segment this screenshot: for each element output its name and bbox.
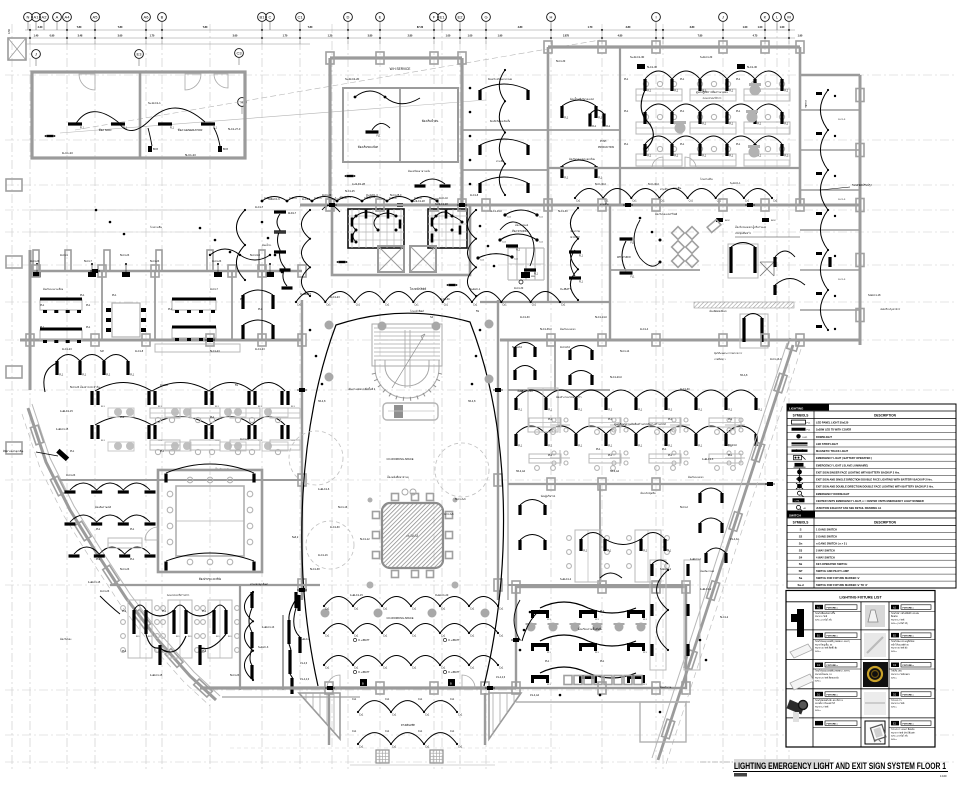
fixture bars row: [643, 112, 646, 124]
long vertical wire right of hall: [467, 210, 476, 296]
corridor S wires: [249, 608, 252, 632]
below classroom small room: [640, 702, 686, 742]
hall rooms bottom wall y390: [508, 389, 610, 391]
grid tick: [161, 30, 163, 44]
svg-text:1S-4,4,6: 1S-4,4,6: [300, 678, 310, 681]
office double door: [652, 157, 663, 168]
room small marks right zone: [716, 218, 723, 222]
svg-text:Cx1: Cx1: [745, 200, 750, 203]
switch row SP: [787, 573, 956, 575]
svg-text:5LC1-2: 5LC1-2: [680, 506, 689, 509]
svg-text:5LC1-16: 5LC1-16: [338, 506, 348, 509]
right corridor top wall: [800, 74, 860, 76]
fixture text cell: [815, 692, 823, 697]
svg-text:โถงหน้าลิฟท์: โถงหน้าลิฟท์: [410, 287, 427, 291]
grid tick: [66, 30, 68, 44]
svg-text:ห้องรับรองงานเยี่ยม: ห้องรับรองงานเยี่ยม: [43, 287, 64, 291]
svg-text:PL1: PL1: [736, 78, 741, 81]
svg-text:Cx1: Cx1: [418, 730, 423, 733]
lounge wires: [634, 220, 660, 266]
atrium long counter table: [383, 403, 438, 420]
legend divider vertical: [813, 411, 815, 511]
svg-text:LED STRIP LIGHT: LED STRIP LIGHT: [816, 442, 838, 446]
grand stair steps: [374, 327, 440, 329]
dimension line lower: [25, 37, 795, 39]
hall small rooms fixtures: [513, 347, 516, 357]
svg-text:DESCRIPTION: DESCRIPTION: [874, 521, 896, 525]
wire hall row1: [516, 390, 756, 398]
svg-text:WH STUDIO: WH STUDIO: [617, 256, 631, 259]
svg-text:ศูนย์เรียนรู้การผลิตสื่อสร้างส: ศูนย์เรียนรู้การผลิตสื่อสร้างสรรค์อย่างส…: [614, 422, 666, 426]
bottom wall door arc 1: [327, 675, 340, 688]
svg-text:5LC1-23: 5LC1-23: [230, 674, 240, 677]
svg-text:ห้อง NOD: ห้อง NOD: [99, 128, 113, 132]
grid bubble B1: [258, 13, 267, 22]
studio fixtures: [506, 244, 518, 247]
svg-text:1.70: 1.70: [588, 26, 593, 29]
right wing wires: [775, 251, 795, 257]
svg-text:1.00: 1.00: [780, 26, 785, 29]
svg-text:PL1: PL1: [80, 294, 85, 297]
studio divider x610: [609, 205, 611, 340]
hall big desks left: [554, 387, 556, 389]
svg-text:5a3,2: 5a3,2: [292, 536, 299, 539]
svg-text:SP: SP: [799, 569, 803, 573]
svg-text:Cx1: Cx1: [297, 304, 302, 307]
door arc top 3: [214, 74, 228, 88]
svg-text:Cx1: Cx1: [473, 304, 478, 307]
switch mark 1: [148, 146, 152, 152]
svg-text:N: N: [27, 15, 30, 20]
diamond lattice furniture: [672, 227, 685, 240]
band d desk wires: [581, 533, 665, 545]
svg-text:5LC1-20-0: 5LC1-20-0: [610, 376, 622, 379]
svg-text:I: I: [655, 15, 656, 20]
svg-text:S+4LC1-28: S+4LC1-28: [412, 200, 425, 203]
left rooms divider x102: [101, 271, 103, 340]
grid tick: [788, 30, 790, 44]
generator block inner wall 2: [244, 72, 247, 158]
grid bubble A5: [91, 13, 100, 22]
fixture pair: [204, 391, 207, 405]
wire row: [645, 136, 782, 144]
svg-text:Cx1: Cx1: [354, 667, 359, 670]
svg-text:1LC1-8: 1LC1-8: [160, 384, 169, 387]
wall pilasters above y271: [33, 250, 39, 271]
svg-text:1LC1-23: 1LC1-23: [62, 151, 73, 155]
svg-text:1 GANG SWITCH: 1 GANG SWITCH: [816, 528, 837, 532]
svg-text:CO-WORKING-SPACE: CO-WORKING-SPACE: [387, 616, 414, 620]
corridor bars right of cluster: [250, 592, 253, 608]
svg-text:ห้องสัมภาษณ์3: ห้องสัมภาษณ์3: [95, 505, 112, 509]
core leader wires: [322, 205, 340, 212]
svg-text:Cx1: Cx1: [383, 608, 388, 611]
legend row exit1: [787, 474, 956, 476]
svg-text:5LC1-2: 5LC1-2: [720, 616, 729, 619]
svg-text:A4: A4: [65, 15, 71, 20]
co-working scallop row 1: [324, 597, 498, 607]
svg-text:S+ELC-3: S+ELC-3: [258, 646, 269, 649]
svg-text:5LC1-23: 5LC1-23: [210, 350, 220, 353]
svg-text:Cx1: Cx1: [412, 635, 417, 638]
grid tick: [261, 30, 263, 44]
fixture icon lamp photo: [865, 605, 885, 627]
svg-text:EXIT SIGN AND DOUBLE DIRECTION: EXIT SIGN AND DOUBLE DIRECTION DOUBLE FA…: [816, 485, 934, 489]
svg-text:S4: S4: [799, 555, 803, 559]
fixture pair: [247, 391, 250, 405]
band d vertical desks: [575, 530, 601, 582]
svg-text:โถงหน้าลิฟท์: โถงหน้าลิฟท์: [410, 309, 424, 313]
desk row: [636, 89, 682, 101]
service fixture: [366, 130, 379, 133]
core room A bars: [351, 218, 354, 227]
WH studio wire: [622, 241, 626, 271]
svg-text:S4f: S4f: [100, 350, 104, 353]
svg-text:S+4LC1-30: S+4LC1-30: [630, 55, 645, 59]
svg-text:O+ELC1-20: O+ELC1-20: [435, 594, 449, 597]
svg-text:1LC1-30: 1LC1-30: [520, 316, 530, 319]
svg-text:S+1LC1-1: S+1LC1-1: [148, 101, 161, 105]
svg-text:J: J: [722, 15, 724, 20]
guest desk pair right: [728, 244, 758, 278]
leader right margin: [820, 187, 850, 190]
svg-text:C3: C3: [236, 51, 242, 56]
svg-text:LED PANEL LIGHT 30x120: LED PANEL LIGHT 30x120: [816, 421, 849, 425]
bottom wall co-working: [200, 686, 516, 689]
junction dots scatter: [261, 221, 264, 224]
below classroom wall: [516, 701, 690, 703]
svg-text:S+ELC-3: S+ELC-3: [300, 638, 310, 641]
svg-text:PL1: PL1: [202, 610, 207, 613]
svg-text:Cx1: Cx1: [425, 714, 430, 717]
small desk bottom left: [108, 538, 142, 548]
band d wires left: [520, 500, 545, 506]
svg-text:E2: E2: [458, 15, 464, 20]
svg-text:S5-4,8: S5-4,8: [468, 400, 476, 403]
svg-text:1LC1-9: 1LC1-9: [838, 199, 846, 201]
svg-text:2 GANG SWITCH: 2 GANG SWITCH: [816, 534, 837, 538]
svg-text:4.50: 4.50: [7, 28, 11, 34]
left zone wall y480: [60, 479, 302, 481]
desk hall scallop row 1: [514, 398, 517, 410]
fixture bars row: [643, 79, 646, 91]
svg-text:S-ELC1-18: S-ELC1-18: [868, 294, 881, 297]
svg-text:BOX: BOX: [725, 220, 730, 222]
svg-text:2 WAY SWITCH: 2 WAY SWITCH: [816, 548, 835, 552]
svg-text:PL1: PL1: [728, 418, 733, 421]
right wing east wall x800: [799, 47, 802, 205]
svg-text:H: H: [550, 15, 553, 20]
meeting room door: [145, 527, 158, 540]
svg-text:1.40: 1.40: [34, 35, 39, 38]
small stair glyph: [760, 262, 774, 276]
svg-text:ห้องรับรองแขก ผู้บริหารและ: ห้องรับรองแขก ผู้บริหารและ: [735, 225, 767, 229]
fixture icon led strip black photo: [863, 662, 888, 687]
svg-text:PL1: PL1: [130, 558, 135, 561]
fixture text cell: [891, 605, 899, 610]
fixture icon torch: [797, 609, 804, 637]
wire row: [645, 104, 782, 112]
diagonal SE columns: [774, 373, 787, 393]
fixture text cell: [891, 663, 899, 668]
meeting room 20 chairs: [167, 491, 173, 497]
svg-text:ติดผนัง: ติดผนัง: [890, 615, 897, 618]
legend row panel: [787, 425, 956, 427]
svg-text:FIXTURE x: FIXTURE x: [827, 636, 839, 638]
svg-text:PL1: PL1: [190, 298, 195, 301]
svg-text:Cx1: Cx1: [385, 730, 390, 733]
left zone chair blobs: [114, 408, 122, 416]
svg-text:1LC1-7: 1LC1-7: [210, 288, 219, 291]
more exit symbols: [329, 203, 335, 207]
svg-text:1LC1-9: 1LC1-9: [838, 119, 846, 121]
core room B grid: [431, 209, 433, 248]
grid tick: [29, 30, 31, 44]
svg-text:Cx1: Cx1: [385, 304, 390, 307]
svg-text:Cx1: Cx1: [356, 304, 361, 307]
svg-text:S5-A,8: S5-A,8: [740, 374, 748, 377]
svg-text:PL1: PL1: [596, 448, 601, 451]
svg-text:Cx1: Cx1: [352, 698, 357, 701]
fixture pair: [147, 391, 150, 405]
svg-text:ห้องรับรองแขกวีไอพี: ห้องรับรองแขกวีไอพี: [655, 212, 678, 216]
svg-text:PL1: PL1: [624, 143, 629, 146]
bottom-left zone walls: [110, 584, 320, 586]
svg-text:O +JBATT: O +JBATT: [448, 639, 460, 642]
grand stair U arc inner: [385, 360, 429, 386]
meeting room wires: [166, 464, 254, 473]
bottom terrace wall: [222, 696, 360, 698]
svg-text:ห้องรับรองแขก: ห้องรับรองแขก: [560, 327, 576, 331]
grid bubble N: [24, 13, 33, 22]
svg-text:PL1: PL1: [736, 143, 741, 146]
svg-text:SWITCH AND PILOT LAMP: SWITCH AND PILOT LAMP: [816, 569, 849, 573]
core room A grid: [351, 209, 353, 248]
svg-text:5LC1-38: 5LC1-38: [310, 568, 320, 571]
svg-text:2.80: 2.80: [408, 35, 413, 38]
grid bubble G: [482, 13, 491, 22]
fixture icon track photo: [864, 692, 886, 715]
svg-text:โถงทางเดิน: โถงทางเดิน: [700, 177, 713, 181]
svg-text:1.90: 1.90: [798, 35, 803, 38]
svg-text:ห้องทำงาน: ห้องทำงาน: [660, 685, 672, 689]
wire drop b: [214, 128, 220, 146]
svg-text:PL1: PL1: [545, 660, 550, 663]
WH studio room bars: [620, 237, 633, 240]
diagonal SE dashed: [666, 349, 801, 764]
vertical wire x200 band E: [244, 592, 253, 680]
grid tick: [347, 30, 349, 44]
svg-text:CO-WORKING-SPACE: CO-WORKING-SPACE: [387, 457, 414, 461]
service lower wire: [420, 179, 445, 184]
svg-text:5LC1-30-0: 5LC1-30-0: [595, 184, 607, 186]
fixture icon panel 1: [790, 644, 812, 658]
grid bubble I: [652, 13, 661, 22]
svg-text:3.80: 3.80: [368, 35, 373, 38]
svg-text:Cx1: Cx1: [352, 730, 357, 733]
core room A fixtures: [355, 215, 358, 218]
toilet strip wires: [277, 214, 287, 286]
svg-text:PL1: PL1: [548, 418, 553, 421]
svg-text:4LD1-7: 4LD1-7: [288, 212, 297, 215]
grid bubble A6: [142, 13, 151, 22]
svg-text:Cx1: Cx1: [383, 635, 388, 638]
svg-text:2x28W LED T8 WITH COVER: 2x28W LED T8 WITH COVER: [816, 428, 851, 432]
svg-text:5LC1-23: 5LC1-23: [70, 386, 80, 389]
grand stair outline: [372, 324, 442, 366]
grid bubble J: [719, 13, 728, 22]
bottom small squares: [376, 750, 389, 763]
building diagonal edge SE: [658, 345, 793, 760]
left edge column a: [6, 179, 22, 191]
legend table frame: [787, 404, 956, 588]
svg-text:1.70: 1.70: [150, 35, 155, 38]
svg-text:ทางเดิน: ทางเดิน: [804, 100, 807, 108]
svg-text:4+ELC1-15: 4+ELC1-15: [56, 428, 69, 431]
svg-text:1LC1-30: 1LC1-30: [330, 526, 340, 529]
svg-text:1LC1-9: 1LC1-9: [838, 279, 846, 281]
grid bubble E2: [456, 13, 465, 22]
svg-text:1LC1-23: 1LC1-23: [66, 474, 76, 477]
svg-text:PL1: PL1: [162, 650, 167, 653]
fixture pair: [247, 425, 250, 439]
svg-text:5LC1-14-0: 5LC1-14-0: [595, 316, 607, 319]
bottom vertical wall left: [328, 693, 330, 745]
lounge room divider y270: [610, 269, 700, 271]
svg-text:Cx1: Cx1: [499, 667, 504, 670]
svg-text:S: S: [800, 528, 802, 532]
service downlight 1: [354, 96, 357, 99]
leader 5LC1-30 box a: [637, 64, 645, 69]
grid tick: [655, 30, 657, 44]
svg-text:7.80: 7.80: [118, 26, 123, 29]
svg-text:ห้องสัมภาษณ์: ห้องสัมภาษณ์: [700, 569, 715, 573]
svg-text:POST-: POST-: [600, 140, 607, 143]
svg-text:Cx1: Cx1: [326, 304, 331, 307]
svg-text:1LC1-23: 1LC1-23: [30, 260, 40, 263]
svg-text:Cx1: Cx1: [418, 698, 423, 701]
svg-text:1S-4,6: 1S-4,6: [300, 662, 308, 665]
tv marks above left rooms: [33, 272, 41, 277]
svg-text:1.90: 1.90: [498, 35, 503, 38]
svg-text:G: G: [484, 15, 487, 20]
dashed circle lower: [306, 521, 354, 569]
svg-text:กองบรรณาธิการ: กองบรรณาธิการ: [703, 96, 722, 100]
corner marks SE top: [787, 339, 800, 352]
door arc top 1: [79, 74, 95, 90]
hull dashed outer: [22, 414, 210, 706]
core room B fixtures: [435, 215, 438, 218]
core em lights: [339, 261, 346, 263]
svg-text:Cx1: Cx1: [632, 200, 637, 203]
svg-text:CENTER UNITS EMERGENCY LIGHT,: CENTER UNITS EMERGENCY LIGHT, x = CENTER…: [816, 499, 924, 503]
bottom-left extra bars: [158, 645, 161, 665]
hall wall y480: [508, 483, 770, 485]
hatched service strip: [694, 302, 794, 308]
svg-text:SYMBOLS: SYMBOLS: [793, 414, 809, 418]
wire room1: [75, 112, 150, 131]
wire into cluster: [100, 596, 120, 614]
svg-text:4.80: 4.80: [518, 26, 523, 29]
core room B bars: [431, 218, 434, 227]
legend row emslv: [787, 467, 956, 469]
switch row S3: [787, 552, 956, 554]
svg-text:A6: A6: [144, 15, 150, 20]
svg-text:Cx1: Cx1: [561, 304, 566, 307]
leader 5LC1-30 box b: [737, 64, 745, 69]
fixture list title: [786, 601, 935, 603]
atrium west wall: [301, 300, 303, 600]
grid bubble A2: [40, 13, 49, 22]
hull columns: [30, 425, 43, 445]
legend switch header: [787, 510, 956, 512]
bottom-left cluster bars tall: [132, 610, 135, 634]
legend row track: [787, 453, 956, 455]
emergency light 1: [47, 135, 54, 137]
svg-text:1S-4,A4: 1S-4,A4: [530, 694, 540, 697]
svg-text:PL1: PL1: [210, 416, 215, 419]
svg-text:1LC1-8-0: 1LC1-8-0: [560, 346, 571, 349]
svg-text:E: E: [379, 15, 382, 20]
grid bubble L: [773, 13, 782, 22]
classroom lockers: [564, 676, 572, 685]
svg-text:5LC1-9-0: 5LC1-9-0: [250, 254, 261, 257]
svg-text:EMERGENCY LIGHT ( BATTERY OPER: EMERGENCY LIGHT ( BATTERY OPERATED ): [816, 456, 872, 460]
svg-text:B1: B1: [260, 15, 266, 20]
svg-text:ห้องทำงานบรรณาธิการ: ห้องทำงานบรรณาธิการ: [556, 395, 583, 399]
svg-text:5LC1-27-0: 5LC1-27-0: [228, 127, 241, 131]
svg-text:SWITCH FOR FIXTURE MARKED 'a': SWITCH FOR FIXTURE MARKED 'a' TO 'd': [816, 583, 868, 587]
svg-text:กองบรรณาธิการข่าว: กองบรรณาธิการข่าว: [167, 593, 190, 597]
room3 tables: [172, 300, 216, 310]
band d divider x600: [599, 484, 601, 585]
svg-text:PL1: PL1: [680, 78, 685, 81]
svg-text:FIXTURE x: FIXTURE x: [903, 695, 915, 697]
title underline: [733, 771, 948, 773]
svg-text:1LC1-8: 1LC1-8: [135, 350, 144, 353]
meeting room 20 table: [176, 486, 244, 556]
svg-text:KEY-OPERATED SWITCH: KEY-OPERATED SWITCH: [816, 562, 847, 566]
svg-text:Cx1: Cx1: [470, 667, 475, 670]
svg-text:3.80: 3.80: [690, 26, 695, 29]
grid bubble A1: [32, 13, 41, 22]
svg-text:CTRL: CTRL: [795, 501, 801, 503]
diagonal SE inner: [652, 343, 787, 758]
svg-text:4+ELC1-2: 4+ELC1-2: [700, 588, 712, 591]
svg-text:PL1: PL1: [608, 454, 613, 457]
core surround wall: [332, 205, 470, 275]
guest room right of core: stall grid: [507, 248, 509, 280]
service wire: [355, 91, 420, 104]
svg-text:ห้องเรียนรวมชั้นที่หนึ่ง: ห้องเรียนรวมชั้นที่หนึ่ง: [577, 627, 603, 631]
svg-text:Cx1: Cx1: [576, 200, 581, 203]
stair triangle right: [489, 693, 521, 739]
long gray slab upper: [155, 344, 240, 352]
svg-text:ขนาด 10 วัตต์/เมตร: ขนาด 10 วัตต์/เมตร: [891, 673, 911, 676]
office gray blobs: [750, 85, 761, 96]
left edge column c: [6, 366, 22, 378]
svg-text:SWITCH: SWITCH: [789, 514, 801, 518]
svg-text:Cx1: Cx1: [444, 304, 449, 307]
svg-text:5LC1-36-0: 5LC1-36-0: [540, 328, 552, 331]
svg-text:ศูนย์ปฏิบัติการสื่อสารมวลชน: ศูนย์ปฏิบัติการสื่อสารมวลชน: [696, 90, 728, 94]
svg-text:PL1: PL1: [70, 450, 75, 453]
svg-text:Cx1: Cx1: [441, 635, 446, 638]
fixture bars generator room: [68, 122, 82, 125]
far right bars: [650, 564, 653, 576]
svg-text:5S: 5S: [235, 384, 238, 387]
svg-text:Sa: Sa: [799, 576, 803, 580]
